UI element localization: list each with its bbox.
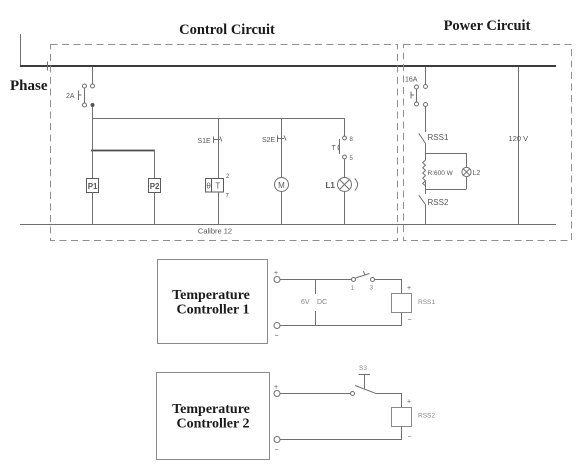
svg-text:S1E: S1E: [198, 138, 212, 145]
wire: bottom rail: [20, 224, 556, 226]
contact RSS1: [419, 133, 449, 144]
svg-text:6V: 6V: [301, 299, 310, 306]
wire: TC1 top: [280, 279, 352, 281]
wire: P1-P2 tie bar: [91, 150, 155, 152]
svg-text:M: M: [278, 181, 285, 190]
thermostat 6T box: [206, 174, 231, 200]
svg-text:Controller 2: Controller 2: [177, 417, 250, 432]
svg-text:−: −: [275, 333, 279, 340]
switch S2E label and contact mark: [262, 136, 286, 145]
svg-text:RSS2: RSS2: [428, 198, 449, 207]
wire: [344, 159, 346, 178]
fuse 16A: [405, 67, 428, 132]
svg-text:−: −: [275, 447, 279, 454]
wire: [344, 192, 346, 225]
svg-text:Phase: Phase: [10, 78, 48, 94]
TC1 + terminal: [274, 270, 280, 283]
svg-text:+: +: [274, 270, 278, 277]
svg-text:120 V: 120 V: [509, 134, 529, 143]
svg-text:P2: P2: [150, 182, 160, 191]
wire: [425, 189, 427, 194]
switch contacts 1-3: [351, 271, 375, 292]
svg-text:S2E: S2E: [262, 137, 276, 144]
lamp L1: [326, 178, 358, 192]
fuse 2A: [66, 67, 95, 118]
TC2 + terminal: [274, 384, 280, 397]
switch S1E label and contact mark: [198, 137, 223, 146]
wire: [281, 192, 283, 225]
wire: [425, 144, 427, 154]
svg-text:R:600 W: R:600 W: [428, 170, 454, 177]
wire: [92, 193, 94, 225]
resistor R 600W: [423, 153, 454, 189]
svg-text:−: −: [408, 434, 412, 441]
svg-text:Control Circuit: Control Circuit: [179, 22, 275, 38]
node: tick on phase bus: [47, 62, 49, 71]
svg-text:θ: θ: [206, 182, 211, 191]
relay coil P2: [149, 179, 161, 193]
svg-text:T: T: [215, 182, 220, 191]
svg-text:S3: S3: [359, 365, 367, 372]
wire: [375, 280, 402, 294]
battery 6V DC: [301, 280, 327, 326]
svg-text:L2: L2: [473, 170, 481, 177]
wire: feeder down to P1/P2 tie: [92, 118, 94, 150]
wire: TC2 bottom: [280, 427, 402, 440]
wire: 6T branch drop: [218, 118, 220, 178]
wire: TC2 top: [280, 393, 351, 395]
power circuit dashed box: [404, 45, 572, 241]
svg-text:T: T: [332, 145, 337, 152]
TC1 - terminal: [274, 323, 280, 341]
svg-text:+: +: [407, 285, 411, 292]
wire: phase bus: [20, 65, 556, 67]
svg-text:+: +: [407, 399, 411, 406]
contact RSS2: [419, 195, 449, 207]
wire: [218, 192, 220, 225]
svg-text:16A: 16A: [405, 77, 418, 84]
wire: P2 drop: [154, 150, 156, 178]
svg-text:P1: P1: [88, 182, 98, 191]
pushbutton T: [332, 136, 354, 162]
wire: [376, 394, 402, 408]
svg-text:Power Circuit: Power Circuit: [444, 18, 531, 34]
wire: lamp branch corner: [344, 118, 346, 136]
lamp L2: [462, 153, 480, 189]
svg-text:Controller 1: Controller 1: [177, 303, 250, 318]
motor M: [275, 178, 289, 192]
svg-text:Calibre 12: Calibre 12: [198, 227, 232, 236]
Temperature Controller 2 box: [157, 373, 270, 460]
svg-text:RSS2: RSS2: [418, 413, 435, 420]
svg-text:Temperature: Temperature: [172, 288, 250, 303]
svg-text:2A: 2A: [66, 93, 75, 100]
wire: incoming phase drop: [20, 34, 22, 66]
relay coil P1: [87, 179, 99, 193]
wire: P1 drop: [92, 150, 94, 178]
wire: [425, 205, 427, 225]
relay coil RSS1 (TC1): [392, 285, 436, 324]
switch S3: [351, 365, 376, 396]
wire: control rail: [93, 118, 345, 120]
wire: [154, 193, 156, 225]
svg-text:DC: DC: [317, 299, 327, 306]
relay coil RSS2 (TC2): [392, 399, 436, 441]
control circuit dashed box: [51, 45, 398, 241]
svg-text:Temperature: Temperature: [172, 402, 250, 417]
wire: 120V return line: [518, 67, 520, 225]
svg-text:−: −: [408, 317, 412, 324]
wire: M branch drop: [281, 118, 283, 178]
svg-text:RSS1: RSS1: [418, 299, 435, 306]
heater loop top: [426, 153, 467, 155]
Temperature Controller 1 box: [158, 260, 268, 344]
svg-text:+: +: [274, 384, 278, 391]
TC2 - terminal: [274, 437, 280, 455]
heater loop bottom: [426, 189, 467, 191]
svg-text:1: 1: [351, 285, 355, 292]
svg-text:3: 3: [370, 285, 374, 292]
wire: TC1 bottom: [280, 313, 402, 326]
svg-text:L1: L1: [326, 181, 336, 190]
svg-text:RSS1: RSS1: [428, 133, 449, 142]
